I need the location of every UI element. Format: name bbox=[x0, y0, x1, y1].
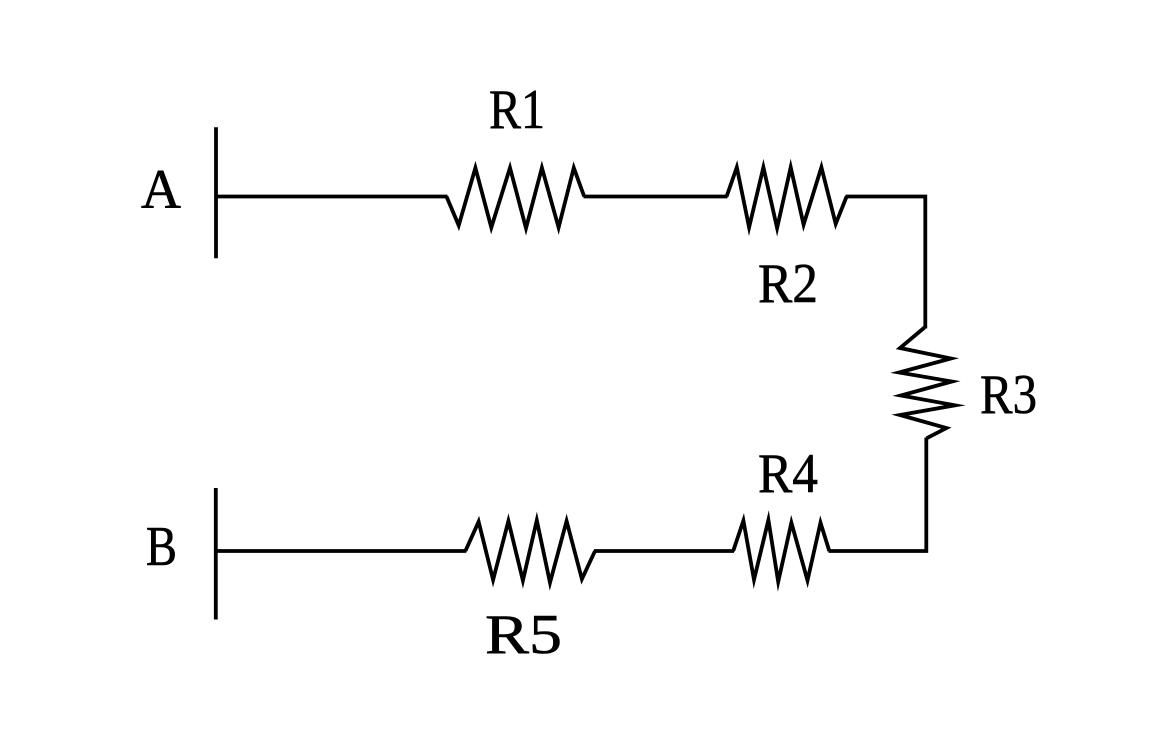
svg-text:R5: R5 bbox=[485, 604, 562, 666]
wire R1 to R2 bbox=[584, 195, 728, 199]
svg-text:R1: R1 bbox=[489, 79, 545, 141]
resistor R4 bbox=[733, 520, 829, 582]
resistor R1 bbox=[447, 168, 585, 228]
terminal A bbox=[214, 127, 218, 258]
resistor R3 bbox=[899, 328, 955, 439]
svg-text:A: A bbox=[141, 159, 182, 221]
wire B to R5 bbox=[216, 549, 466, 553]
svg-text:R3: R3 bbox=[980, 364, 1037, 426]
resistor R2 bbox=[727, 167, 847, 228]
wire R4 to R5 bbox=[594, 549, 734, 553]
svg-text:B: B bbox=[146, 516, 177, 578]
svg-text:R4: R4 bbox=[758, 443, 818, 505]
terminal B bbox=[214, 488, 218, 620]
wire R2 to corner, down to R3 bbox=[846, 197, 926, 329]
resistor R5 bbox=[465, 520, 595, 582]
wire R3 down to corner, left to R4 bbox=[829, 438, 927, 552]
svg-text:R2: R2 bbox=[758, 253, 818, 315]
wire A to R1 bbox=[216, 195, 448, 199]
